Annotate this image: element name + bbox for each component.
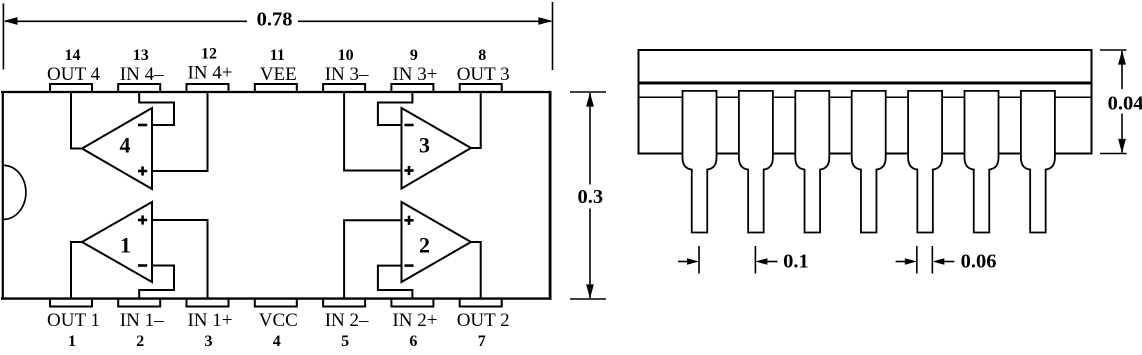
svg-text:IN 4+: IN 4+ [187,63,232,84]
svg-text:OUT 3: OUT 3 [457,64,510,85]
svg-text:8: 8 [478,47,486,64]
svg-text:0.04: 0.04 [1108,93,1142,115]
svg-text:9: 9 [410,47,418,64]
svg-text:2: 2 [136,333,144,350]
svg-text:6: 6 [409,333,417,350]
svg-text:OUT 2: OUT 2 [457,310,510,331]
svg-text:14: 14 [65,47,81,64]
svg-text:4: 4 [273,333,281,350]
svg-text:IN 3–: IN 3– [325,64,369,85]
svg-text:2: 2 [419,232,430,257]
svg-text:OUT 1: OUT 1 [47,310,100,331]
svg-text:11: 11 [270,47,285,64]
svg-text:3: 3 [419,133,430,158]
svg-text:IN 3+: IN 3+ [392,64,437,85]
svg-text:13: 13 [133,47,149,64]
svg-text:0.06: 0.06 [961,251,997,273]
svg-text:IN 1–: IN 1– [120,310,164,331]
svg-text:12: 12 [201,46,217,63]
svg-text:4: 4 [120,133,131,158]
svg-text:IN 2–: IN 2– [325,310,369,331]
svg-text:IN 4–: IN 4– [120,64,164,85]
svg-text:0.1: 0.1 [783,251,809,273]
svg-text:VCC: VCC [259,310,298,331]
svg-text:OUT 4: OUT 4 [47,64,100,85]
svg-text:IN 1+: IN 1+ [187,310,232,331]
svg-text:10: 10 [338,47,354,64]
svg-text:7: 7 [478,333,486,350]
svg-text:5: 5 [341,333,349,350]
svg-text:1: 1 [120,232,131,257]
svg-text:0.78: 0.78 [257,9,293,31]
svg-text:IN 2+: IN 2+ [392,310,437,331]
svg-text:1: 1 [68,333,76,350]
svg-text:VEE: VEE [260,64,297,85]
svg-text:0.3: 0.3 [577,186,603,208]
svg-text:3: 3 [205,333,213,350]
